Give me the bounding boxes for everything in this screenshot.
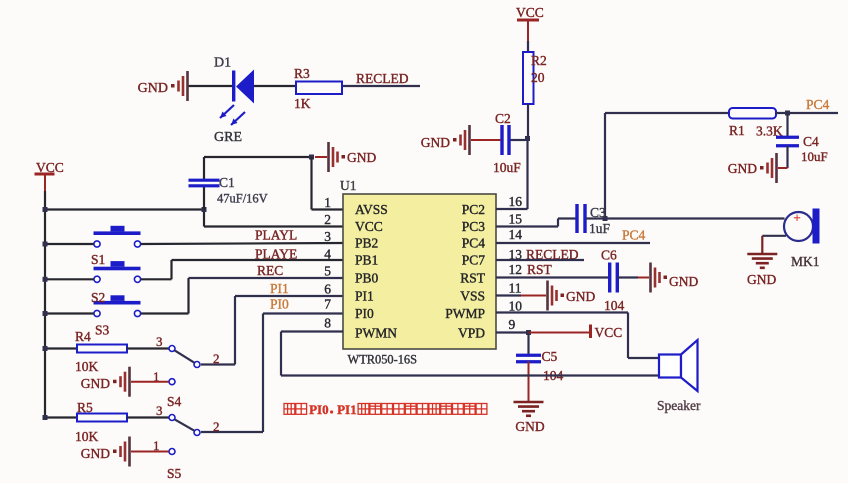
svg-text:GND: GND <box>421 135 450 150</box>
svg-text:GND: GND <box>728 161 757 176</box>
svg-text:PI0: PI0 <box>355 306 374 321</box>
svg-text:+: + <box>793 210 800 225</box>
svg-text:PI1: PI1 <box>355 289 374 304</box>
svg-text:1uF: 1uF <box>589 221 611 236</box>
svg-text:104: 104 <box>604 298 625 313</box>
svg-text:PI1: PI1 <box>337 402 357 417</box>
svg-text:S1: S1 <box>91 252 105 267</box>
svg-text:PI0: PI0 <box>270 297 289 312</box>
svg-text:1: 1 <box>324 195 331 210</box>
svg-text:PC4: PC4 <box>462 236 486 251</box>
svg-text:10K: 10K <box>75 429 99 444</box>
svg-text:VCC: VCC <box>355 219 383 234</box>
svg-text:PC3: PC3 <box>462 219 486 234</box>
svg-text:RST: RST <box>460 271 486 286</box>
svg-text:14: 14 <box>509 227 523 242</box>
svg-text:C5: C5 <box>542 349 558 364</box>
svg-text:S5: S5 <box>167 466 182 481</box>
svg-text:2: 2 <box>213 351 220 366</box>
svg-text:PC7: PC7 <box>462 253 486 268</box>
svg-text:8: 8 <box>324 316 331 331</box>
svg-text:C3: C3 <box>590 205 606 220</box>
svg-text:GND: GND <box>347 150 376 165</box>
svg-text:10: 10 <box>509 299 523 314</box>
svg-text:REC: REC <box>257 263 283 278</box>
svg-text:WTR050-16S: WTR050-16S <box>348 353 418 367</box>
svg-text:RECLED: RECLED <box>356 71 409 86</box>
svg-text:C2: C2 <box>495 111 511 126</box>
svg-text:3: 3 <box>324 229 331 244</box>
svg-text:20: 20 <box>531 70 545 85</box>
svg-text:RST: RST <box>527 262 553 277</box>
svg-text:VSS: VSS <box>460 289 485 304</box>
svg-text:10uF: 10uF <box>801 149 828 164</box>
svg-text:PC2: PC2 <box>462 202 485 217</box>
svg-text:S3: S3 <box>95 323 110 338</box>
svg-text:MK1: MK1 <box>791 254 820 269</box>
svg-text:D1: D1 <box>214 56 231 71</box>
svg-text:VPD: VPD <box>458 326 485 341</box>
svg-text:GND: GND <box>81 446 110 461</box>
svg-text:7: 7 <box>324 297 331 312</box>
svg-text:16: 16 <box>509 194 523 209</box>
svg-text:GND: GND <box>566 289 595 304</box>
svg-text:GRE: GRE <box>214 130 242 145</box>
svg-text:C1: C1 <box>219 175 235 190</box>
svg-text:9: 9 <box>509 317 516 332</box>
svg-text:2: 2 <box>324 212 331 227</box>
svg-text:1: 1 <box>153 438 160 453</box>
svg-text:R4: R4 <box>75 329 91 344</box>
svg-text:PC4: PC4 <box>622 228 646 243</box>
svg-text:U1: U1 <box>340 178 357 193</box>
svg-text:GND: GND <box>747 272 776 287</box>
svg-text:GND: GND <box>669 274 698 289</box>
svg-text:GND: GND <box>515 419 544 434</box>
svg-text:R3: R3 <box>294 66 310 81</box>
svg-text:3: 3 <box>156 403 163 418</box>
svg-text:VCC: VCC <box>595 325 623 340</box>
svg-text:PB1: PB1 <box>355 253 378 268</box>
svg-text:PC4: PC4 <box>806 97 830 112</box>
svg-text:VCC: VCC <box>516 5 544 20</box>
svg-text:11: 11 <box>509 281 522 296</box>
svg-text:C6: C6 <box>601 248 617 263</box>
svg-text:GND: GND <box>138 81 168 96</box>
svg-text:R1: R1 <box>729 123 745 138</box>
svg-text:10K: 10K <box>75 359 99 374</box>
svg-text:AVSS: AVSS <box>355 202 388 217</box>
svg-text:3: 3 <box>156 334 163 349</box>
svg-text:PWMP: PWMP <box>445 306 485 321</box>
svg-text:5: 5 <box>324 264 331 279</box>
svg-text:R5: R5 <box>77 400 93 415</box>
svg-text:15: 15 <box>509 212 523 227</box>
svg-text:PWMN: PWMN <box>355 326 397 341</box>
svg-text:C4: C4 <box>803 134 819 149</box>
svg-text:PB0: PB0 <box>355 271 379 286</box>
svg-text:PI0: PI0 <box>309 402 329 417</box>
svg-text:12: 12 <box>509 262 523 277</box>
svg-text:6: 6 <box>324 282 331 297</box>
svg-text:PLAYE: PLAYE <box>255 247 297 262</box>
svg-text:10uF: 10uF <box>493 160 521 175</box>
svg-text:PI1: PI1 <box>270 281 289 296</box>
svg-text:PLAYL: PLAYL <box>255 228 297 243</box>
svg-text:47uF/16V: 47uF/16V <box>217 192 268 206</box>
svg-text:PB2: PB2 <box>355 236 378 251</box>
svg-text:4: 4 <box>324 247 331 262</box>
svg-text:1: 1 <box>153 369 160 384</box>
svg-text:S4: S4 <box>167 394 182 409</box>
svg-text:R2: R2 <box>531 53 547 68</box>
svg-text:1K: 1K <box>294 96 311 111</box>
svg-text:GND: GND <box>81 376 110 391</box>
svg-text:2: 2 <box>213 419 220 434</box>
svg-text:S2: S2 <box>91 290 105 305</box>
svg-text:Speaker: Speaker <box>657 398 701 413</box>
